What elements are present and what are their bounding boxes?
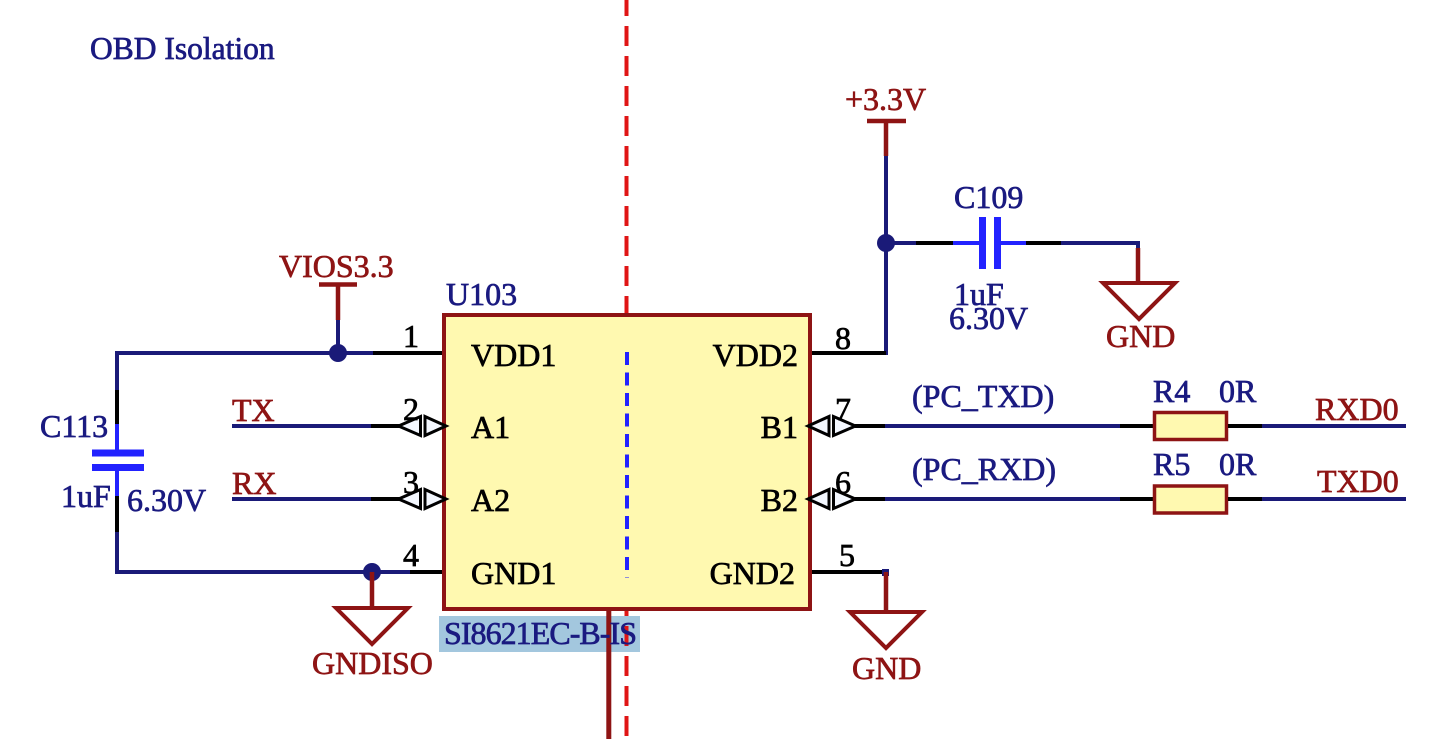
svg-text:0R: 0R [1219, 446, 1257, 482]
power symbol GNDISO [312, 572, 433, 681]
pin C109.1 [916, 241, 953, 245]
svg-text:TXD0: TXD0 [1317, 463, 1399, 499]
wire R5 to TXD0 [1262, 497, 1406, 501]
pin C113.1 [115, 390, 119, 424]
capacitor C113 [92, 424, 144, 496]
junction dot VDD1 [329, 344, 347, 362]
pin 6 arrow [808, 490, 829, 509]
svg-text:6: 6 [835, 464, 851, 500]
svg-text:RX: RX [232, 465, 276, 501]
svg-text:GND2: GND2 [710, 555, 795, 591]
svg-text:+3.3V: +3.3V [845, 81, 926, 117]
svg-text:VIOS3.3: VIOS3.3 [279, 248, 394, 284]
pin R4.2 [1228, 424, 1262, 428]
pin 7 arrow [808, 417, 829, 436]
pin 8 wire [812, 351, 886, 355]
svg-text:A2: A2 [471, 482, 510, 518]
junction dot GND1 [363, 563, 381, 581]
wire VDD1 net top [117, 351, 373, 355]
pin R4.1 [1120, 424, 1153, 428]
svg-text:R5: R5 [1153, 446, 1190, 482]
wire VIOS3.3 stem [336, 320, 340, 353]
wire C109 right [1061, 241, 1139, 245]
svg-text:1: 1 [403, 318, 419, 354]
svg-text:U103: U103 [446, 276, 517, 312]
net SI8621EC-B-IS highlight [439, 616, 640, 652]
svg-text:1uF: 1uF [61, 478, 111, 514]
svg-text:8: 8 [835, 320, 851, 356]
svg-text:VDD2: VDD2 [713, 337, 798, 373]
svg-text:2: 2 [403, 391, 419, 427]
pin 6 wire [855, 497, 885, 501]
svg-text:B2: B2 [761, 482, 798, 518]
isolation blue dashed line inside U103 [625, 352, 629, 578]
resistor R5 [1155, 486, 1227, 513]
wire VDD2 vertical [884, 243, 888, 355]
svg-text:0R: 0R [1219, 373, 1257, 409]
svg-text:GND1: GND1 [471, 555, 556, 591]
svg-text:B1: B1 [761, 409, 798, 445]
pin C109.2 [1026, 241, 1061, 245]
pin 2 wire [371, 424, 400, 428]
svg-text:A1: A1 [471, 409, 510, 445]
svg-text:GNDISO: GNDISO [312, 645, 433, 681]
pin R5.1 [1120, 497, 1153, 501]
isolation boundary red dashed line [625, 0, 629, 739]
svg-text:GND: GND [1106, 318, 1175, 354]
wire +3.3V stem [884, 156, 888, 243]
svg-text:5: 5 [839, 537, 855, 573]
power symbol VIOS3.3 [279, 248, 394, 320]
pin 1 wire [373, 351, 442, 355]
pin 3 wire [371, 497, 400, 501]
wire B2 to R5 [885, 497, 1120, 501]
svg-text:RXD0: RXD0 [1315, 391, 1399, 427]
wire C109 left [886, 241, 916, 245]
svg-text:OBD Isolation: OBD Isolation [90, 31, 275, 66]
svg-text:C109: C109 [954, 179, 1023, 215]
svg-text:4: 4 [403, 537, 419, 573]
svg-text:3: 3 [403, 464, 419, 500]
sheet divider solid dark red line [606, 609, 611, 739]
wire RX [232, 497, 373, 501]
svg-text:(PC_RXD): (PC_RXD) [912, 451, 1056, 487]
svg-text:GND: GND [852, 650, 921, 686]
pin 7 wire [855, 424, 885, 428]
wire TX [232, 424, 373, 428]
pin C113.2 [115, 496, 119, 532]
wire R4 to RXD0 [1262, 424, 1406, 428]
wire B1 to R4 [885, 424, 1120, 428]
pin 5 wire [812, 570, 886, 574]
svg-text:7: 7 [835, 391, 851, 427]
pin R5.2 [1228, 497, 1262, 501]
wire corner down [1136, 241, 1140, 250]
chip U103 body [444, 315, 810, 609]
wire left vertical bottom [115, 532, 119, 574]
svg-text:SI8621EC-B-IS: SI8621EC-B-IS [444, 615, 637, 651]
svg-text:TX: TX [232, 392, 275, 428]
svg-text:VDD1: VDD1 [471, 337, 556, 373]
resistor R4 [1155, 413, 1227, 440]
wire GND1 net bottom [115, 570, 410, 574]
svg-text:R4: R4 [1153, 373, 1190, 409]
svg-text:6.30V: 6.30V [127, 482, 206, 518]
pin 4 wire [410, 570, 442, 574]
capacitor C109 [953, 217, 1026, 269]
wire left vertical C113 net [115, 351, 119, 390]
power symbol GND below pin5 [850, 569, 922, 686]
power symbol +3.3V [845, 81, 926, 156]
pin 2 arrow [399, 417, 421, 436]
svg-text:(PC_TXD): (PC_TXD) [912, 378, 1054, 414]
power symbol GND right of C109 [1103, 248, 1175, 354]
svg-text:6.30V: 6.30V [949, 300, 1028, 336]
pin 3 arrow [399, 490, 421, 509]
junction dot VDD2 [877, 234, 895, 252]
svg-text:C113: C113 [40, 408, 108, 444]
